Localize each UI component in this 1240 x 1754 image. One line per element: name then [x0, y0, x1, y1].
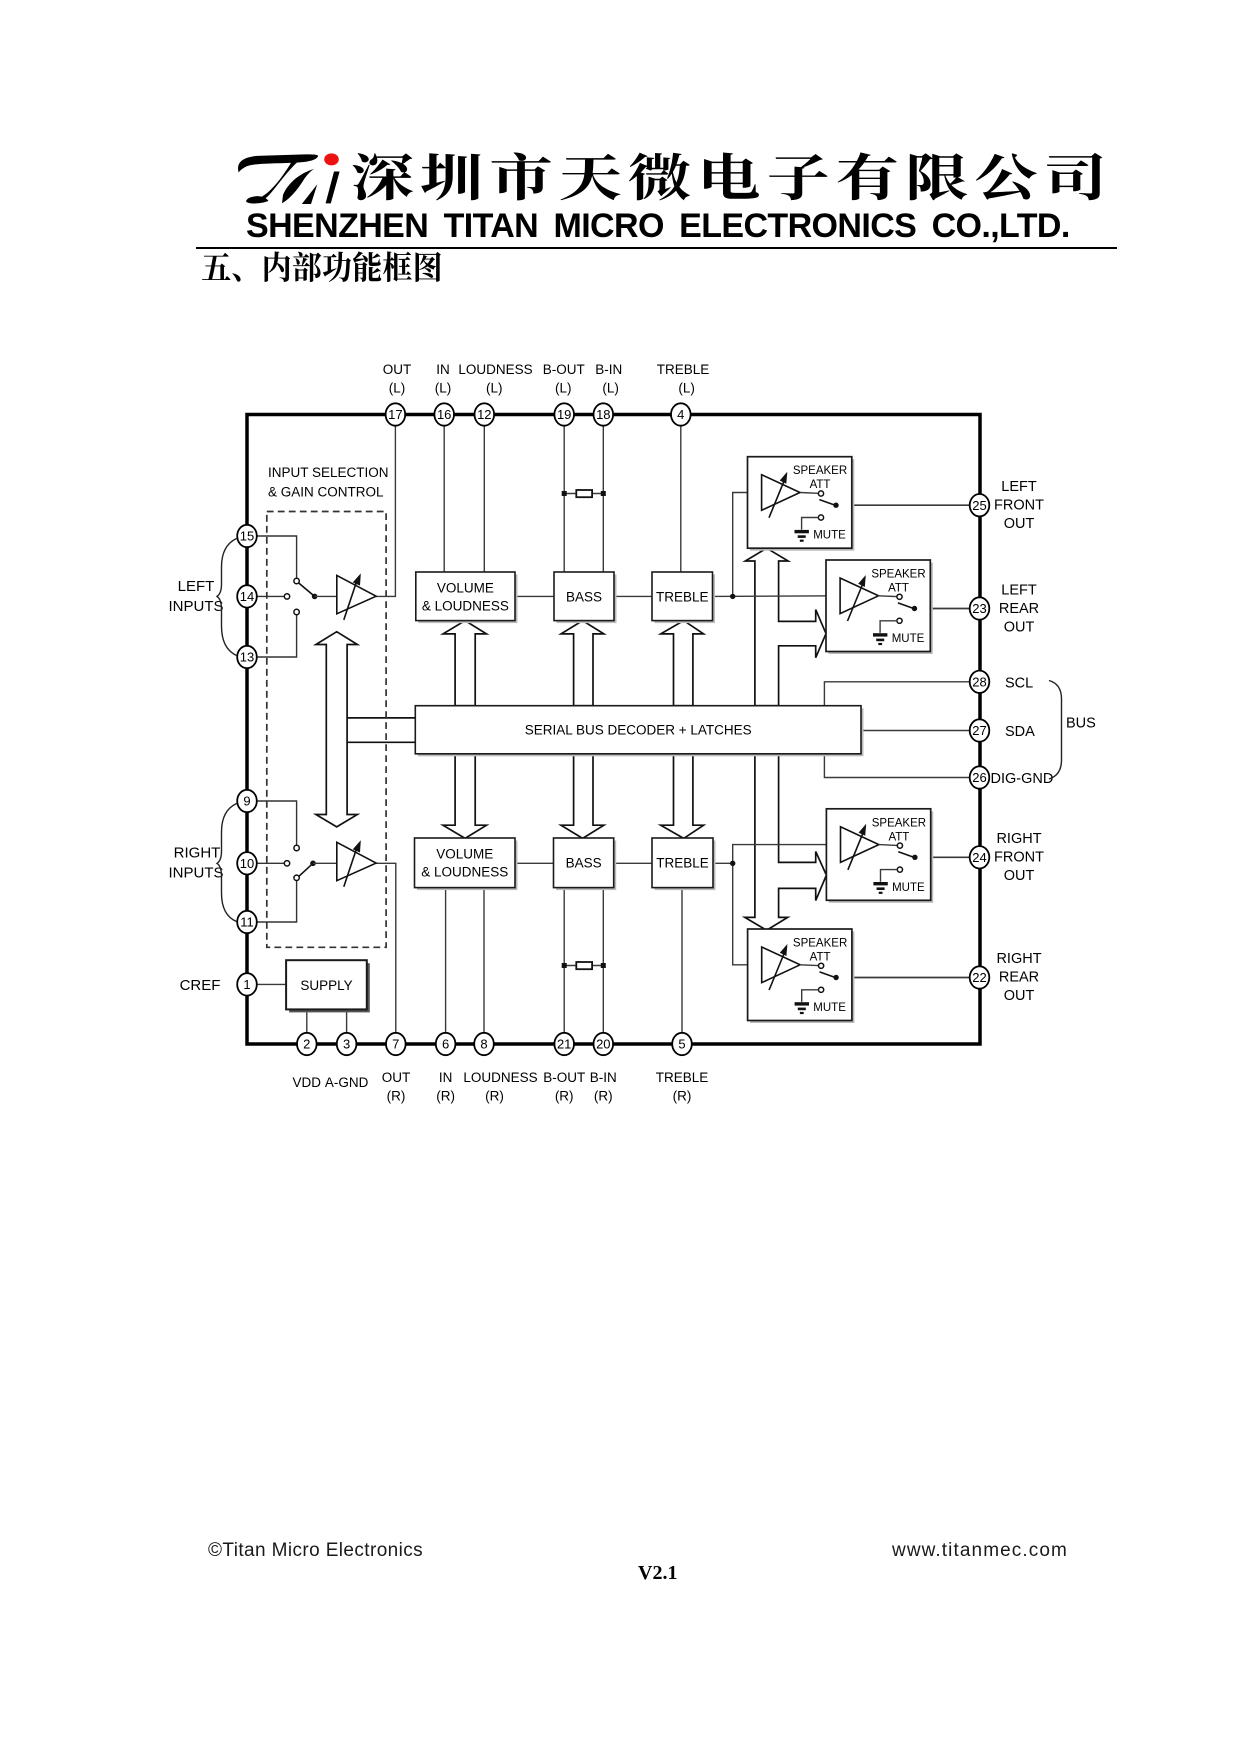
svg-text:VOLUME: VOLUME	[436, 847, 493, 862]
wire left front att to pin25	[836, 504, 970, 506]
svg-text:ATT: ATT	[888, 831, 909, 843]
svg-text:SPEAKER: SPEAKER	[871, 569, 925, 581]
svg-text:(R): (R)	[485, 1089, 504, 1104]
dashed box input selection and gain control	[267, 512, 386, 948]
branch wire to left front speaker amp	[733, 493, 762, 597]
svg-text:12: 12	[477, 407, 491, 422]
speaker switch contact right rear	[819, 963, 824, 968]
variable-gain amplifier inside left front	[762, 475, 800, 511]
wire pin18 B-IN(L) to bass	[602, 426, 604, 572]
svg-text:B-IN: B-IN	[590, 1070, 617, 1085]
wire pin4 to treble (L)	[680, 426, 682, 572]
svg-text:LEFT: LEFT	[178, 578, 215, 595]
svg-text:(L): (L)	[555, 381, 572, 396]
pin 8 LOUDNESS R	[474, 1033, 494, 1055]
control bus arrow to TREBLE (R)	[661, 754, 704, 839]
pin 5 TREBLE R	[672, 1033, 692, 1055]
svg-text:LEFT: LEFT	[1001, 582, 1037, 598]
svg-text:(L): (L)	[486, 381, 503, 396]
svg-text:SERIAL BUS DECODER + LATCHES: SERIAL BUS DECODER + LATCHES	[525, 723, 752, 738]
IC outer boundary box	[247, 415, 980, 1045]
svg-text:6: 6	[442, 1037, 449, 1052]
brace right inputs	[217, 804, 237, 922]
block SUPPLY	[289, 963, 370, 1012]
speaker attenuator block left front	[750, 459, 854, 551]
svg-text:FRONT: FRONT	[994, 497, 1044, 513]
svg-text:MUTE: MUTE	[813, 1002, 846, 1014]
svg-text:REAR: REAR	[999, 601, 1039, 617]
wire bass(L) to treble(L)	[614, 595, 652, 597]
svg-text:5: 5	[678, 1037, 685, 1052]
control bus arrow to speaker att right front / right rear	[745, 754, 827, 930]
wire pin20 B-IN(R) to bass(R)	[602, 888, 604, 1033]
wire treble(R) to junction	[713, 862, 733, 864]
double-headed control arrow to input selection	[316, 632, 358, 827]
svg-text:SCL: SCL	[1005, 675, 1033, 691]
pin 22 RIGHT REAR OUT	[970, 966, 990, 988]
variable-gain input amplifier right channel	[337, 842, 376, 880]
svg-text:SDA: SDA	[1005, 724, 1035, 740]
svg-text:BUS: BUS	[1066, 716, 1096, 732]
svg-text:(R): (R)	[594, 1089, 613, 1104]
svg-text:19: 19	[557, 407, 571, 422]
wire wiper to amp (L)	[315, 595, 337, 597]
svg-text:1: 1	[243, 977, 250, 992]
wire pin1 CREF to supply	[257, 983, 286, 985]
wire pin12 to volume (L)	[483, 426, 485, 572]
header rule	[196, 247, 1117, 249]
svg-text:B-OUT: B-OUT	[543, 1070, 585, 1085]
wire pin5 to treble(R)	[681, 888, 683, 1033]
wire treble(L) to left rear speaker amp	[713, 595, 841, 598]
svg-text:OUT: OUT	[1004, 868, 1035, 884]
BUS brace and label	[1049, 681, 1062, 780]
svg-text:14: 14	[240, 589, 254, 604]
block BASS (R)	[556, 841, 616, 891]
branch wire to right rear speaker amp	[733, 863, 762, 965]
pin 16 IN L	[434, 403, 454, 425]
mute contact right front	[897, 867, 902, 872]
mute contact left rear	[897, 618, 902, 623]
ground symbol in left rear	[873, 633, 887, 636]
svg-text:IN: IN	[436, 362, 450, 377]
pin 26 DIG-GND	[970, 766, 990, 788]
svg-text:27: 27	[972, 723, 986, 738]
speaker attenuator block left rear	[829, 563, 933, 655]
wire decoder to pin26 DIG-GND	[824, 754, 969, 778]
pin 2 VDD	[297, 1033, 317, 1055]
external resistor between B-OUT(L) and B-IN(L)	[564, 493, 603, 495]
wire amp output to switch in left rear	[879, 595, 897, 598]
svg-text:(R): (R)	[387, 1089, 406, 1104]
pin 11 right input 3	[237, 911, 257, 933]
svg-text:OUT: OUT	[382, 1070, 411, 1085]
svg-text:LOUDNESS: LOUDNESS	[458, 362, 532, 377]
wire volume(L) to bass(L)	[515, 595, 554, 597]
pin 12 LOUDNESS L	[475, 403, 495, 425]
wire pin19 B-OUT(L) to bass	[563, 426, 565, 572]
svg-text:22: 22	[972, 970, 986, 985]
svg-text:BASS: BASS	[566, 856, 602, 871]
mute contact right rear	[819, 987, 824, 992]
svg-text:VDD: VDD	[293, 1075, 322, 1090]
svg-text:4: 4	[677, 407, 684, 422]
svg-text:24: 24	[972, 850, 986, 865]
svg-text:OUT: OUT	[1004, 988, 1035, 1004]
wire supply to pin3 A-GND	[346, 1009, 348, 1032]
pin 23 LEFT REAR OUT	[970, 597, 990, 619]
wire decoder to pin27 SDA	[861, 730, 970, 732]
company logo Tmi	[236, 135, 346, 215]
block SERIAL BUS DECODER + LATCHES	[418, 708, 864, 756]
svg-text:SUPPLY: SUPPLY	[300, 978, 352, 993]
svg-text:TREBLE: TREBLE	[656, 856, 709, 871]
svg-text:25: 25	[972, 498, 986, 513]
wire right front att to pin24	[915, 856, 970, 858]
svg-text:REAR: REAR	[999, 970, 1039, 986]
svg-text:TREBLE: TREBLE	[656, 590, 709, 605]
svg-text:OUT: OUT	[383, 362, 412, 377]
svg-text:IN: IN	[439, 1070, 453, 1085]
pin 13 left input 3	[237, 646, 257, 668]
svg-text:(R): (R)	[673, 1089, 692, 1104]
svg-text:17: 17	[388, 407, 402, 422]
wire volume(R) to bass(R)	[515, 862, 554, 864]
wire pin21 B-OUT(R) to bass(R)	[563, 888, 565, 1033]
wire wiper to amp (R)	[313, 862, 337, 864]
pin 28 SCL	[970, 671, 990, 693]
wire pin14 to selector	[257, 595, 284, 597]
pin 14 left input 2	[237, 585, 257, 607]
svg-text:RIGHT: RIGHT	[996, 951, 1041, 967]
connector decoder to input-selection arrow	[347, 717, 415, 719]
svg-text:RIGHT: RIGHT	[996, 831, 1041, 847]
section heading	[190, 245, 480, 290]
pin 24 RIGHT FRONT OUT	[970, 846, 990, 868]
footer right	[892, 1540, 1068, 1562]
block VOLUME & LOUDNESS (L)	[418, 575, 517, 624]
svg-text:SPEAKER: SPEAKER	[793, 938, 847, 950]
pin 4 TREBLE L	[671, 403, 691, 425]
pin 1 CREF	[237, 973, 257, 995]
wire pin15 to selector	[257, 536, 297, 578]
variable-gain input amplifier left channel	[337, 575, 376, 613]
footer left	[208, 1540, 423, 1562]
control bus arrow to BASS (R)	[561, 754, 604, 839]
svg-text:16: 16	[437, 407, 451, 422]
variable-gain amplifier inside right front	[841, 827, 879, 863]
svg-text:2: 2	[303, 1037, 310, 1052]
svg-text:20: 20	[596, 1037, 610, 1052]
block VOLUME & LOUDNESS (R)	[417, 841, 518, 891]
wire pin13 to selector	[257, 615, 297, 657]
wire pin6 IN(R) to volume(R)	[445, 888, 447, 1033]
ground symbol in left front	[795, 530, 809, 533]
control bus arrow to BASS (L)	[561, 621, 604, 706]
svg-text:13: 13	[240, 650, 254, 665]
svg-text:& LOUDNESS: & LOUDNESS	[421, 865, 508, 880]
wire pin10 to selector	[257, 862, 284, 864]
svg-text:INPUTS: INPUTS	[168, 865, 223, 882]
pin 6 IN R	[436, 1033, 456, 1055]
speaker switch contact left front	[818, 491, 823, 496]
wire pin16 to volume (L)	[443, 426, 445, 572]
wire pin9 to selector	[257, 801, 297, 845]
speaker attenuator block right front	[829, 811, 933, 903]
svg-text:LEFT: LEFT	[1001, 479, 1037, 495]
svg-text:INPUTS: INPUTS	[168, 598, 223, 615]
selector contacts (L)	[294, 578, 299, 583]
wire pin11 to selector	[257, 881, 297, 922]
svg-text:SPEAKER: SPEAKER	[872, 817, 926, 829]
wire amp output to switch in right front	[879, 844, 897, 847]
svg-text:21: 21	[557, 1037, 571, 1052]
selector wiper (R)	[299, 863, 313, 876]
pin 9 right input 1	[237, 790, 257, 812]
branch wire to right front speaker amp	[733, 845, 841, 864]
wire input amp output (R) to pin7	[376, 863, 396, 1033]
svg-text:3: 3	[343, 1037, 350, 1052]
pin 21 B-OUT R	[554, 1033, 574, 1055]
svg-text:18: 18	[596, 407, 610, 422]
svg-text:10: 10	[240, 856, 254, 871]
svg-text:MUTE: MUTE	[813, 530, 846, 542]
svg-text:INPUT SELECTION: INPUT SELECTION	[268, 465, 389, 480]
svg-text:28: 28	[972, 675, 986, 690]
svg-text:(R): (R)	[555, 1089, 574, 1104]
wire pin17 to input amp output (L)	[376, 426, 395, 597]
svg-text:23: 23	[972, 601, 986, 616]
svg-text:OUT: OUT	[1004, 516, 1035, 532]
brace left inputs	[217, 539, 237, 656]
wire amp output to switch in left front	[800, 492, 818, 495]
variable-gain amplifier inside right rear	[762, 947, 800, 983]
control bus arrow to VOLUME & LOUDNESS (L)	[443, 621, 487, 706]
block BASS (L)	[557, 575, 617, 624]
svg-text:MUTE: MUTE	[892, 882, 925, 894]
control bus arrow to VOLUME & LOUDNESS (R)	[443, 754, 487, 839]
svg-text:B-IN: B-IN	[595, 362, 622, 377]
variable-gain amplifier inside left rear	[840, 578, 878, 614]
speaker attenuator block right rear	[750, 932, 854, 1024]
selector contacts (R)	[294, 845, 299, 850]
svg-text:A-GND: A-GND	[325, 1075, 369, 1090]
svg-text:8: 8	[480, 1037, 487, 1052]
svg-text:VOLUME: VOLUME	[437, 581, 494, 596]
wire bass(R) to treble(R)	[614, 862, 652, 864]
svg-text:CREF: CREF	[180, 977, 221, 994]
block diagram	[150, 330, 1120, 1120]
svg-text:ATT: ATT	[888, 583, 909, 595]
svg-text:(R): (R)	[436, 1089, 455, 1104]
selector wiper (L)	[299, 583, 315, 596]
pin 15 left input 1	[237, 525, 257, 547]
wire amp output to switch in right rear	[800, 964, 818, 967]
svg-text:(L): (L)	[389, 381, 406, 396]
svg-text:B-OUT: B-OUT	[543, 362, 585, 377]
svg-text:11: 11	[240, 915, 254, 930]
svg-text:SPEAKER: SPEAKER	[793, 465, 847, 477]
svg-text:(L): (L)	[435, 381, 452, 396]
wire left rear att to pin23	[915, 608, 970, 610]
pin 10 right input 2	[237, 852, 257, 874]
pin 19 B-OUT L	[554, 403, 574, 425]
svg-text:FRONT: FRONT	[994, 850, 1044, 866]
pin 25 LEFT FRONT OUT	[970, 494, 990, 516]
pin 3 A-GND	[337, 1033, 357, 1055]
speaker switch contact left rear	[897, 594, 902, 599]
svg-text:& GAIN CONTROL: & GAIN CONTROL	[268, 485, 384, 500]
ground symbol in right front	[873, 882, 887, 885]
external resistor between B-OUT(R) and B-IN(R)	[564, 965, 603, 967]
svg-text:7: 7	[392, 1037, 399, 1052]
svg-text:(L): (L)	[602, 381, 619, 396]
block TREBLE (L)	[655, 575, 716, 624]
svg-text:TREBLE: TREBLE	[656, 1070, 709, 1085]
svg-text:ATT: ATT	[810, 952, 831, 964]
speaker switch contact right front	[897, 843, 902, 848]
control bus arrow to speaker att left front / left rear	[745, 548, 826, 706]
svg-text:OUT: OUT	[1004, 619, 1035, 635]
ground symbol in right rear	[795, 1002, 809, 1005]
pin 20 B-IN R	[594, 1033, 614, 1055]
svg-text:LOUDNESS: LOUDNESS	[463, 1070, 537, 1085]
control bus arrow to TREBLE (L)	[661, 621, 704, 706]
svg-text:(L): (L)	[678, 381, 695, 396]
svg-text:& LOUDNESS: & LOUDNESS	[422, 599, 509, 614]
English company name	[246, 207, 1076, 246]
mute contact left front	[818, 515, 823, 520]
svg-text:TREBLE: TREBLE	[657, 362, 710, 377]
wire decoder to pin28 SCL	[824, 682, 969, 706]
svg-text:BASS: BASS	[566, 590, 602, 605]
wire pin8 LOUDNESS(R) to volume(R)	[483, 888, 485, 1033]
svg-text:MUTE: MUTE	[892, 633, 925, 645]
pin 27 SDA	[970, 719, 990, 741]
Chinese company name	[348, 130, 1120, 215]
pin 18 B-IN L	[594, 403, 614, 425]
pin 17 OUT L	[386, 403, 406, 425]
block TREBLE (R)	[655, 841, 716, 891]
svg-text:26: 26	[972, 770, 986, 785]
wire right rear att to pin22	[836, 977, 970, 979]
svg-text:9: 9	[243, 794, 250, 809]
svg-text:DIG-GND: DIG-GND	[991, 771, 1054, 787]
footer version	[638, 1562, 677, 1585]
svg-text:RIGHT: RIGHT	[174, 845, 221, 862]
svg-text:15: 15	[240, 529, 254, 544]
svg-text:ATT: ATT	[810, 479, 831, 491]
wire supply to pin2 VDD	[306, 1009, 308, 1032]
pin 7 OUT R	[386, 1033, 406, 1055]
